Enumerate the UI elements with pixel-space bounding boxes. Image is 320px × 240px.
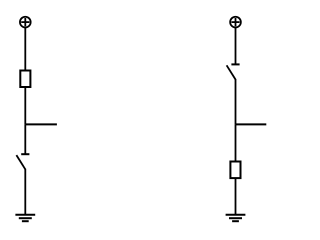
- wire: left supply to resistor R1: [24, 28, 26, 71]
- switch S1 (open, contact tick and blade): [16, 154, 29, 169]
- wire: node B to resistor R2: [235, 124, 237, 161]
- wire: resistor R2 to ground: [235, 178, 237, 215]
- wire: right supply to switch S2: [235, 28, 237, 65]
- wire: switch S1 to ground: [24, 169, 26, 215]
- resistor R1: [20, 71, 30, 88]
- ground (left branch): [15, 215, 35, 221]
- switch S2 (open, contact tick and blade): [227, 64, 240, 79]
- power supply +V (left branch): [20, 17, 31, 28]
- node A output stub (horizontal wire): [25, 123, 57, 125]
- ground (right branch): [226, 215, 246, 221]
- wire: resistor R1 to node A: [24, 87, 26, 124]
- wire: switch S2 to node B: [235, 79, 237, 124]
- wire: node A to switch S1: [24, 124, 26, 154]
- resistor R2: [230, 162, 240, 179]
- power supply +V (right branch): [230, 17, 241, 28]
- node B output stub (horizontal wire): [236, 123, 267, 125]
